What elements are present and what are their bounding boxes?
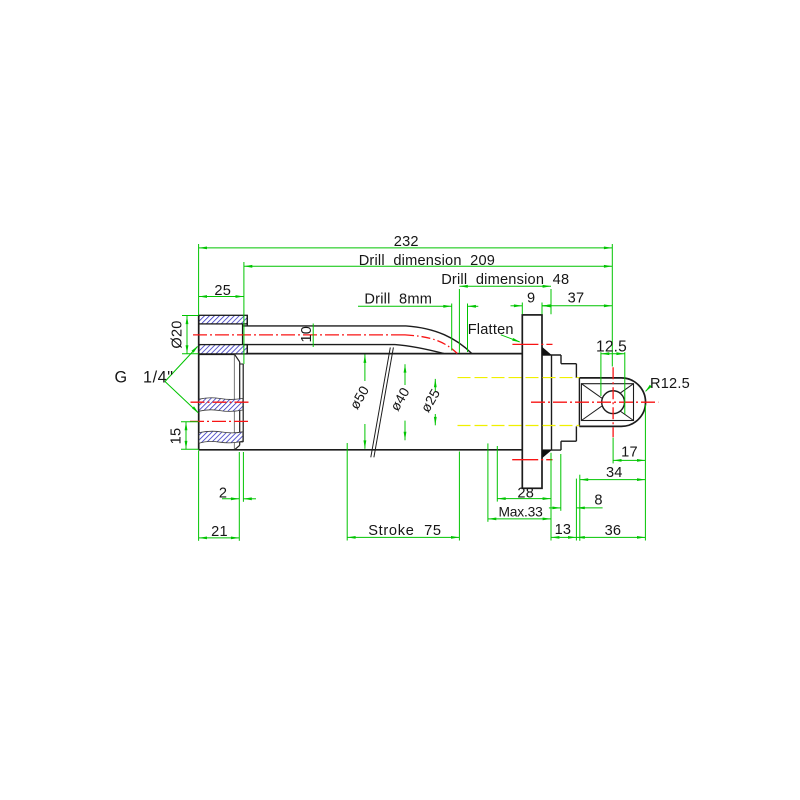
gland spigot bottom cap [240,441,244,443]
dimension 17 line [613,459,645,462]
svg-text:28: 28 [517,485,534,501]
extension line x=560.8 (8 L) [560,454,562,511]
oil pipe bottom line [243,344,396,346]
dimension max33 line [488,518,551,521]
leader G 1/4 lower [165,382,199,414]
dimension 25 line [199,295,244,298]
dimension 15 text [169,428,185,445]
step A top edge [542,354,561,356]
dimension 28 line [497,497,551,500]
extension line x=451.7 [451,304,453,351]
dimension 48 text [441,272,569,288]
step A top right face [560,355,562,364]
dimension Drill 8mm line [358,305,478,308]
svg-text:25: 25 [214,283,231,299]
dimension D25 text [418,386,443,415]
extension line x=487.9 (max33 L) [487,443,489,521]
dimension D50 text [347,383,372,412]
extension line x=612.3 [611,244,613,367]
extension line x=551 upper [550,289,552,314]
port axis centerline (red) [190,420,250,422]
svg-text:15: 15 [169,428,185,445]
svg-text:232: 232 [394,234,419,250]
label G 1/4 text [115,368,174,386]
svg-text:ø25: ø25 [418,386,443,415]
dimension 28 text [517,485,534,501]
dimension 34 line [580,478,646,481]
dimension 209 line [244,265,612,268]
svg-text:R12.5: R12.5 [650,376,690,392]
dimension 8 line [549,507,603,510]
extension line x=239.3 [238,452,240,541]
hidden rod bottom line (yellow) [458,425,580,427]
svg-text:2: 2 [219,486,227,502]
pipe centerline (red) [193,334,405,336]
hidden rod top line (yellow) [458,377,580,379]
extension line x=542 (flange R) [541,303,543,315]
port upper thread hatch (wavy) [199,398,243,412]
label R12.5 text [650,376,690,392]
step B top edge [561,363,576,365]
dimension stroke text [368,523,442,539]
dimension D20 tick bottom [182,353,199,355]
clevis diagonal 1 [581,384,633,421]
extension line x=613.1 (17 L) [612,438,614,464]
break line 1 [371,347,391,457]
flange plate [522,315,542,488]
label Flatten text [468,322,514,338]
extension line x=497.3 (28 L) [496,446,498,502]
dimension 37 text [568,291,585,307]
extension line x=551 lower [550,453,552,541]
dimension D50 line [364,355,367,449]
svg-text:Flatten: Flatten [468,322,514,338]
leader R12.5 [645,385,652,392]
svg-text:ø40: ø40 [388,385,413,414]
dimension 9 line [511,304,552,307]
oil pipe top line [243,325,407,327]
gland spigot root line [239,362,241,445]
svg-text:21: 21 [211,524,228,540]
dimension 12.5 line [601,352,625,355]
clevis outline [579,378,645,427]
svg-text:12.5: 12.5 [596,338,627,355]
flange upper bolt centerline (red) [512,343,552,345]
gland left face [198,354,200,450]
step A bottom right face [560,441,562,450]
gland spigot top cap [240,363,244,365]
extension line x=579.8 (34 L) [579,475,581,541]
dimension 36 text [605,523,622,539]
dimension 34 text [606,465,623,481]
extension line x=624.8 (12.5 R) [624,352,626,414]
dimension 209 text [359,253,495,269]
extension line x=467.5 [467,304,469,353]
dimension 10 line [312,324,314,348]
dimension stroke line [347,536,459,539]
extension line x=522.3 (flange L) [521,303,523,315]
gland top edge [199,353,235,355]
break line 2 [374,347,394,457]
dimension 2 text [219,486,227,502]
step B top right face [575,364,577,378]
dimension 15 tick bottom [181,448,199,450]
svg-text:Ø20: Ø20 [170,320,186,348]
dimension 13 line [551,536,576,539]
oil pipe bend inner curve [395,345,444,354]
clevis left face [578,378,580,427]
main axis centerline left (red) [191,401,251,403]
leader G 1/4 upper [165,346,198,382]
dimension 9 text [527,291,535,307]
dimension D25 line [434,379,437,425]
extension line x=600.9 (12.5 L) [600,352,602,396]
extension line x=576.4 (13/36) [575,479,577,541]
gland seam line [551,355,553,450]
svg-text:Stroke 75: Stroke 75 [368,523,442,539]
gland spigot crest line [242,364,244,442]
dimension 25 text [214,283,231,299]
dimension D20 tick top [182,315,199,317]
extension line x=347.2 (stroke L) [346,443,348,541]
dimension 8 text [594,492,602,508]
dimension 48 line [459,285,551,288]
dimension 232 line [199,247,613,250]
extension line x=459.4 upper [458,289,460,353]
main axis centerline right (red) [531,401,658,403]
svg-text:34: 34 [606,465,623,481]
dimension 15 tick top [181,421,199,423]
port lower thread hatch (wavy) [199,431,243,443]
step B bottom edge [561,440,576,442]
oil pipe bend outer curve [406,326,472,354]
svg-text:13: 13 [555,522,572,538]
dimension 15 line [185,422,188,450]
svg-text:37: 37 [568,291,585,307]
cylinder body top line [246,353,522,355]
dimension 232 text [394,234,419,250]
fitting boss upper thread band (hatched) [199,315,248,324]
svg-text:17: 17 [621,444,638,460]
svg-text:10: 10 [299,326,315,343]
extension line x=459.4 lower [458,452,460,541]
dimension 36 line [576,536,645,539]
clevis diagonal 2 [581,384,633,421]
clevis pin vertical centerline (red) [612,367,614,437]
svg-text:Drill dimension 48: Drill dimension 48 [441,272,569,288]
dimension max33 text [499,505,544,520]
fitting boss lower thread band (hatched) [199,345,248,354]
svg-text:ø50: ø50 [347,383,372,412]
dimension 21 line [199,537,240,540]
svg-text:Max.33: Max.33 [499,505,544,520]
step A bottom edge [542,449,561,451]
weld fillet upper [542,347,552,355]
dimension 10 text [299,326,315,343]
svg-text:Drill 8mm: Drill 8mm [364,292,432,308]
dimension 21 text [211,524,228,540]
leader Flatten [501,335,521,343]
svg-text:36: 36 [605,523,622,539]
svg-text:8: 8 [594,492,602,508]
dimension 13 text [555,522,572,538]
dimension Drill 8mm text [364,292,432,308]
fitting boss right face lower [246,345,248,354]
clevis inner box [581,384,633,421]
step B bottom right face [575,426,577,441]
dimension 12.5 text [596,338,627,355]
extension line x=243.9 [243,262,245,364]
cylinder body bottom line [199,449,523,451]
flange lower bolt centerline (red) [512,459,552,461]
extension line x=198.6 upper [198,244,200,315]
dimension 2 line [222,497,256,500]
dimension 37 line [542,304,612,307]
dimension D40 line [404,364,407,440]
pipe end inside socket [242,324,244,345]
dimension D20 line [186,316,189,354]
extension line x=645.4 [644,405,646,541]
fitting boss left face [198,315,200,354]
pipe bend centerline (red) [405,335,457,354]
svg-text:G 1/4": G 1/4" [115,368,174,386]
extension line x=198.6 lower [198,451,200,541]
fitting boss right face upper [246,315,248,326]
svg-text:Drill dimension 209: Drill dimension 209 [359,253,495,269]
extension line x=243.4 [242,452,244,502]
dimension 17 text [621,444,638,460]
clevis pin hole [602,391,625,414]
gland bottom chamfer [235,445,240,449]
svg-text:9: 9 [527,291,535,307]
gland top chamfer [235,354,240,362]
gland chamfer edge line [233,355,235,450]
weld fillet lower [542,450,552,458]
dimension D40 text [388,385,413,414]
dimension D20 text [170,320,186,348]
